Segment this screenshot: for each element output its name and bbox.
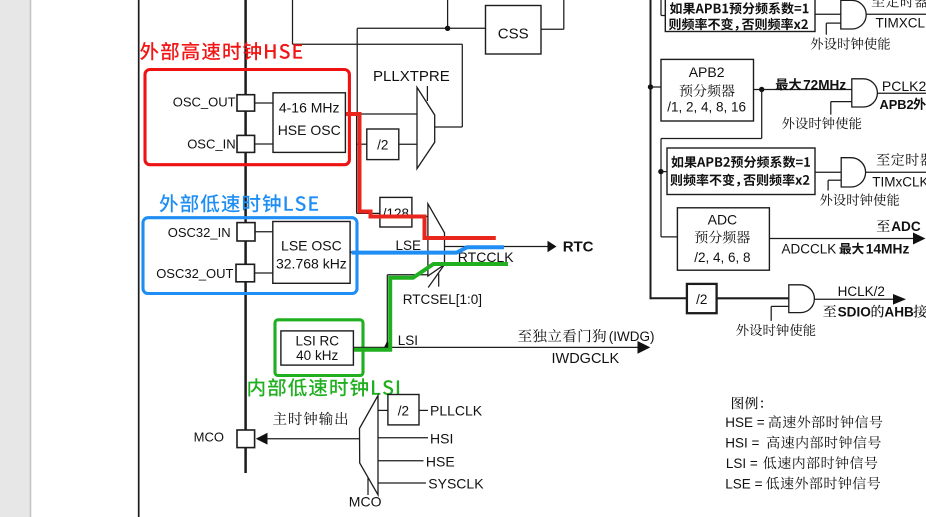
wire OSC_IN pin to HSE OSC [255,143,273,145]
label main clock output [273,412,347,426]
wire HSI input [378,437,428,439]
label max 72MHz [776,78,801,90]
legend title [732,397,763,410]
title LSE external low-speed clock [160,194,319,212]
wire HSE to CSS [357,27,485,29]
svg-text:OSC32_OUT: OSC32_OUT [156,266,233,281]
svg-text:ADCCLK: ADCCLK [782,241,837,256]
title LSI internal low-speed clock [248,378,399,396]
chip boundary rail [244,0,247,473]
wire HSE output [345,113,417,115]
node junction on CSS wire [445,26,450,31]
svg-text:PCLK2: PCLK2 [882,78,926,94]
select lines RTCSEL [428,265,444,288]
wire from top to PLL area [292,0,294,44]
svg-text:TIMXCLK: TIMXCLK [876,15,926,30]
divider /2 (SDIO) [687,284,717,313]
wire ADCCLK [769,238,914,240]
wire gate output HCLK/2 [814,298,894,300]
svg-text:SDIO: SDIO [838,305,871,320]
svg-text:CSS: CSS [498,26,529,43]
wire trunk turn to /2 [651,297,687,299]
pin OSC_IN [237,135,255,152]
svg-text:LSI =: LSI = [726,456,758,471]
junction LSI branch [383,341,392,350]
and-gate U1 (TIMXCLK) [841,0,866,29]
svg-text:/2, 4, 6, 8: /2, 4, 6, 8 [694,250,750,265]
annotation box LSI (green) [275,320,363,376]
wire HSE branch to dividers [356,114,358,213]
node APB2 output [759,87,764,92]
wire LSE clock path (blue overlay) [352,247,505,252]
wire MCO output [267,438,360,440]
enable stub (row2) [831,101,852,103]
arrow to ADC [913,233,926,245]
svg-text:HSI: HSI [430,431,453,447]
arrow HCLK/2 [893,294,906,305]
divider /2 (MCO PLL) [388,395,419,425]
label peripheral clock enable (row1) [811,37,890,50]
svg-text:LSI: LSI [398,333,418,348]
svg-text:OSC32_IN: OSC32_IN [168,225,231,240]
svg-text:40 kHz: 40 kHz [296,348,338,363]
divider /128 [380,197,412,227]
svg-text:SYSCLK: SYSCLK [428,476,484,492]
svg-text:/2: /2 [398,403,409,418]
pin OSC32_OUT [236,264,255,282]
pin MCO [237,430,255,448]
wire OSC32_OUT pin to LSE OSC [255,272,273,274]
and-gate U3 (TIMxCLK) [841,158,865,187]
wire mux to /2 PLL [378,409,388,411]
label to timers (row1, cut) [872,0,926,8]
wire RTCCLK [445,246,549,248]
wire LSI output to IWDG [353,346,638,348]
arrow to IWDG [638,341,651,354]
wire /128 to RTC mux [412,216,428,218]
svg-text:ADC: ADC [708,211,738,227]
prescaler ADC [677,208,769,270]
svg-text:4-16 MHz: 4-16 MHz [279,100,340,116]
wire box to gate (row3) [815,171,841,173]
label to ADC [877,220,890,232]
and-gate U2 (PCLK2) [852,79,878,107]
svg-text:14MHz: 14MHz [866,241,910,256]
enable stub (row1) [826,22,841,24]
svg-text:RTC: RTC [563,239,594,256]
mux MCO [360,396,379,495]
wire gate output (row1) [866,13,926,15]
svg-text:OSC_OUT: OSC_OUT [173,95,236,110]
wire APB2 output [754,89,852,91]
svg-text:HSE OSC: HSE OSC [278,122,341,138]
svg-text:/2: /2 [696,292,707,307]
grey sidebar background [0,0,31,517]
svg-text:APB2: APB2 [880,97,914,112]
svg-text:/1, 2, 4, 8, 16: /1, 2, 4, 8, 16 [667,100,746,115]
wire OSC32_IN pin to LSE OSC [255,231,273,233]
svg-text:MCO: MCO [349,494,382,510]
wire gate output (row3) [866,171,926,173]
wire LSE to RTC mux [350,251,428,253]
wire OSC_OUT pin to HSE OSC [255,102,273,104]
svg-text:MCO: MCO [194,430,224,445]
svg-text:HSI =: HSI = [725,436,759,451]
label peripheral clock enable (row3) [820,193,899,206]
enable stub (row5) [771,305,789,307]
oscillator LSI RC 40 kHz [281,331,354,365]
enable stub (row3) [828,179,841,181]
svg-text:(IWDG): (IWDG) [609,329,655,344]
svg-text:LSE: LSE [396,238,422,253]
box APB2 frequency rule [667,148,815,195]
pin OSC_OUT [237,95,255,111]
wire APB2 out down to APB2 rule box and ADC [761,90,763,139]
wire /2 to PLLCLK label [419,409,428,411]
label peripheral clock enable (row5) [736,324,815,337]
node on trunk to APB2 [648,84,653,89]
wire to top at CSS junction [447,0,449,28]
svg-text:HSE: HSE [426,453,455,469]
svg-text:/2: /2 [377,138,388,153]
oscillator LSE OSC 32.768 kHz [273,222,350,284]
wire trunk to APB2 box [651,86,662,88]
svg-text:HSE =: HSE = [725,415,765,430]
wire HSE input [378,460,424,462]
label peripheral clock enable (row2) [782,117,861,129]
arrow MCO output [256,433,268,445]
svg-text:LSI RC: LSI RC [295,333,339,348]
pin OSC32_IN [237,223,255,241]
mux RTCSEL [428,204,445,276]
wire /2 to PLLXTPRE mux [399,143,417,145]
node to APB2 rule box [658,169,663,174]
select line MCO [367,478,369,496]
left border rail [138,0,140,517]
wire /2 to gate (thick) [717,297,789,299]
svg-text:IWDGCLK: IWDGCLK [552,351,620,367]
wire stub into APB1 x2 box [660,0,662,16]
wire feed to ADC prescaler [661,236,677,238]
prescaler APB2 [661,59,754,121]
wire gate output (row2) [877,92,926,94]
wire box to gate (row1) [815,13,841,15]
and-gate U4 (SDIO) [789,285,815,313]
svg-text:LSE =: LSE = [725,476,762,491]
divider /2 (PLL input) [367,129,399,160]
svg-text:AHB: AHB [884,305,914,320]
svg-text:ADC: ADC [891,219,921,234]
oscillator HSE OSC 4-16 MHz [273,93,345,153]
wire AHB trunk [650,0,652,299]
label to timers (row3) [877,153,926,166]
wire LSI clock path (green overlay) [354,264,508,350]
svg-text:32.768 kHz: 32.768 kHz [276,256,347,272]
label to independent watchdog IWDG [518,329,606,342]
svg-text:PLLXTPRE: PLLXTPRE [373,68,450,85]
wire LSI riser to RTC mux [386,275,388,348]
annotation box LSE (blue) [143,218,357,294]
svg-text:72MHz: 72MHz [803,77,846,92]
annotation box HSE (red) [145,70,349,165]
wire PLLXTPRE output loop [461,44,463,127]
label to SDIO AHB interface [823,305,836,317]
mux PLLXTPRE [417,87,435,168]
select line PLLXTPRE [426,86,428,101]
arrow to RTC [548,241,557,253]
CSS box [486,6,542,55]
wire HSE branch down [356,28,358,114]
wire SYSCLK input [378,482,426,484]
wire CSS output [541,28,564,30]
wire to divider /2 [357,143,367,145]
svg-text:OSC_IN: OSC_IN [187,137,235,152]
svg-text:PLLCLK: PLLCLK [430,403,483,419]
svg-text:APB2: APB2 [689,64,725,80]
svg-text:RTCSEL[1:0]: RTCSEL[1:0] [403,292,482,307]
box APB1 frequency rule [665,0,815,32]
svg-text:/128: /128 [383,206,409,221]
svg-text:TIMxCLK: TIMxCLK [872,175,926,190]
wire HSE clock path (red overlay) [346,114,496,238]
svg-text:LSE OSC: LSE OSC [281,238,342,254]
svg-text:HCLK/2: HCLK/2 [838,284,885,299]
title HSE external high-speed clock [140,42,302,60]
